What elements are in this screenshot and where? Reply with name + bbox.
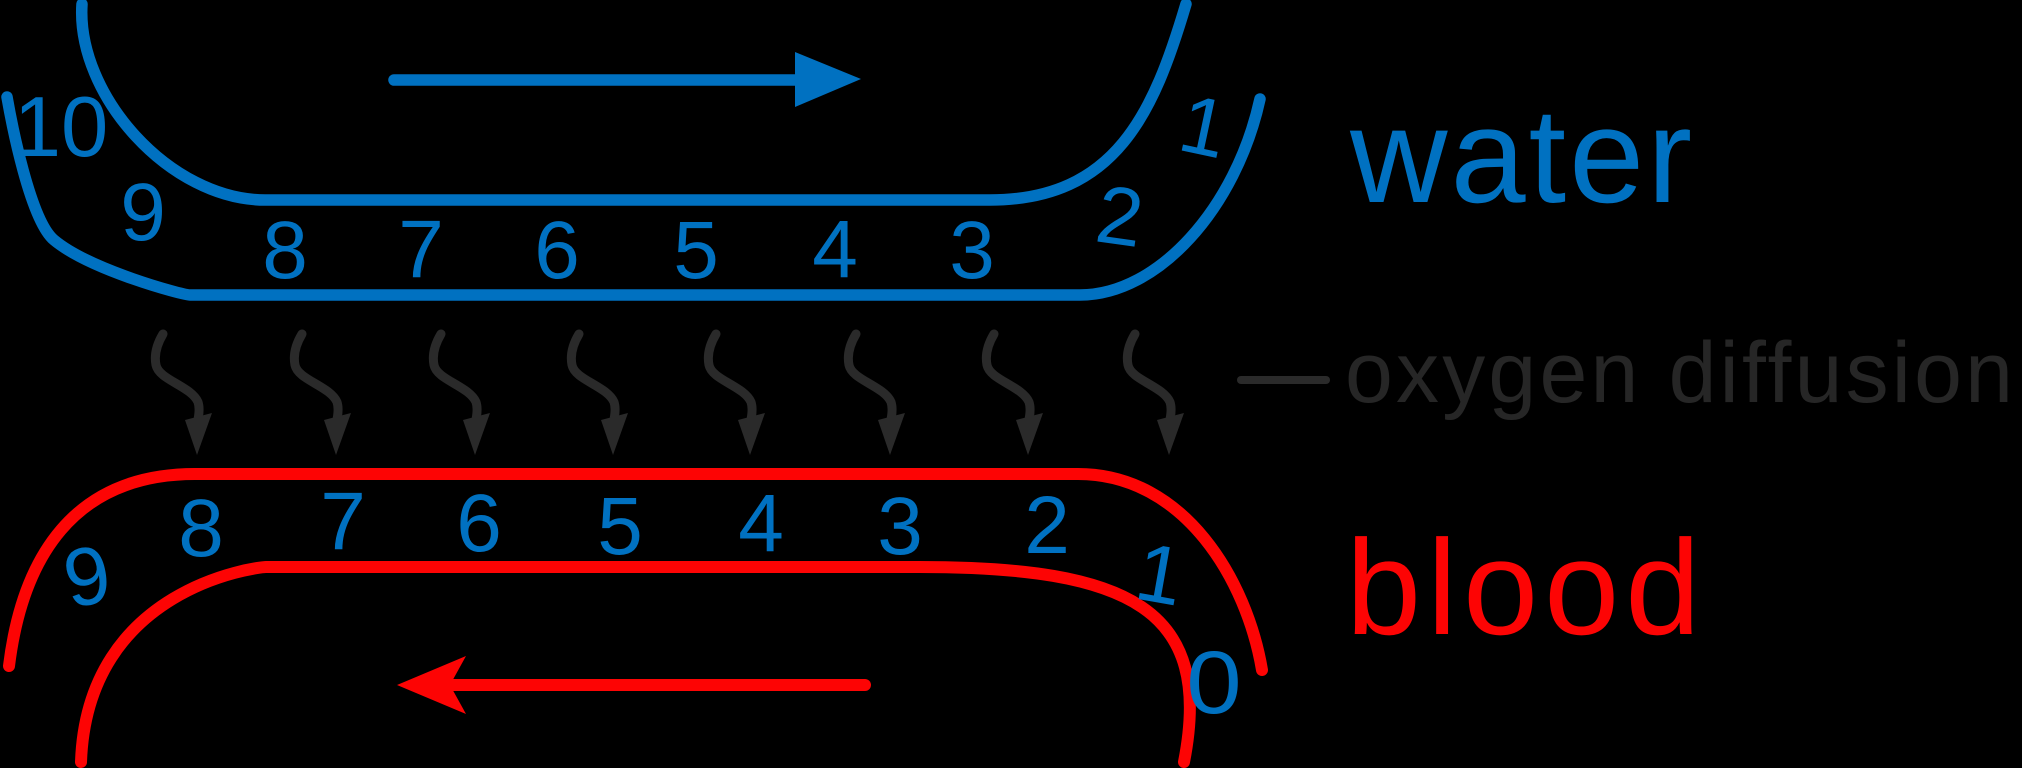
svg-text:8: 8 <box>178 483 224 574</box>
svg-text:10: 10 <box>14 80 109 175</box>
svg-text:9: 9 <box>120 167 166 258</box>
blood flow arrow head (red) <box>397 656 466 714</box>
svg-text:6: 6 <box>456 478 502 569</box>
svg-text:5: 5 <box>673 205 719 296</box>
blood channel lower wall (red curve) <box>81 567 1190 762</box>
blood flow arrow shaft (red) <box>452 679 865 691</box>
svg-text:water: water <box>1349 80 1695 231</box>
oxygen diffusion squiggle arrow 4 <box>571 334 628 455</box>
svg-text:4: 4 <box>812 204 858 295</box>
svg-text:4: 4 <box>738 478 784 569</box>
oxygen diffusion squiggle arrow 2 <box>294 334 351 455</box>
svg-text:blood: blood <box>1346 512 1706 663</box>
oxygen diffusion squiggle arrow 1 <box>155 334 212 455</box>
water flow arrow head (blue) <box>795 52 861 107</box>
svg-text:7: 7 <box>398 204 444 295</box>
svg-text:6: 6 <box>534 205 580 296</box>
oxygen diffusion squiggle arrow 5 <box>708 334 765 455</box>
water channel lower wall (blue curve) <box>7 97 1260 295</box>
svg-text:oxygen diffusion: oxygen diffusion <box>1345 325 2016 421</box>
blood channel upper wall (red curve) <box>9 474 1262 670</box>
svg-text:5: 5 <box>597 481 643 572</box>
oxygen diffusion squiggle arrow 7 <box>986 334 1043 455</box>
legend dash for oxygen diffusion <box>1241 376 1326 384</box>
oxygen diffusion squiggle arrow 3 <box>433 334 490 455</box>
oxygen diffusion squiggle arrow 6 <box>848 334 905 455</box>
svg-text:2: 2 <box>1024 480 1070 571</box>
svg-text:8: 8 <box>262 205 308 296</box>
oxygen diffusion squiggle arrow 8 <box>1127 334 1184 455</box>
svg-text:3: 3 <box>949 205 995 296</box>
svg-text:0: 0 <box>1186 633 1241 733</box>
water flow arrow shaft (blue) <box>394 74 806 86</box>
svg-text:7: 7 <box>320 476 366 567</box>
svg-text:3: 3 <box>877 481 923 572</box>
water channel upper wall (blue curve) <box>82 4 1186 200</box>
